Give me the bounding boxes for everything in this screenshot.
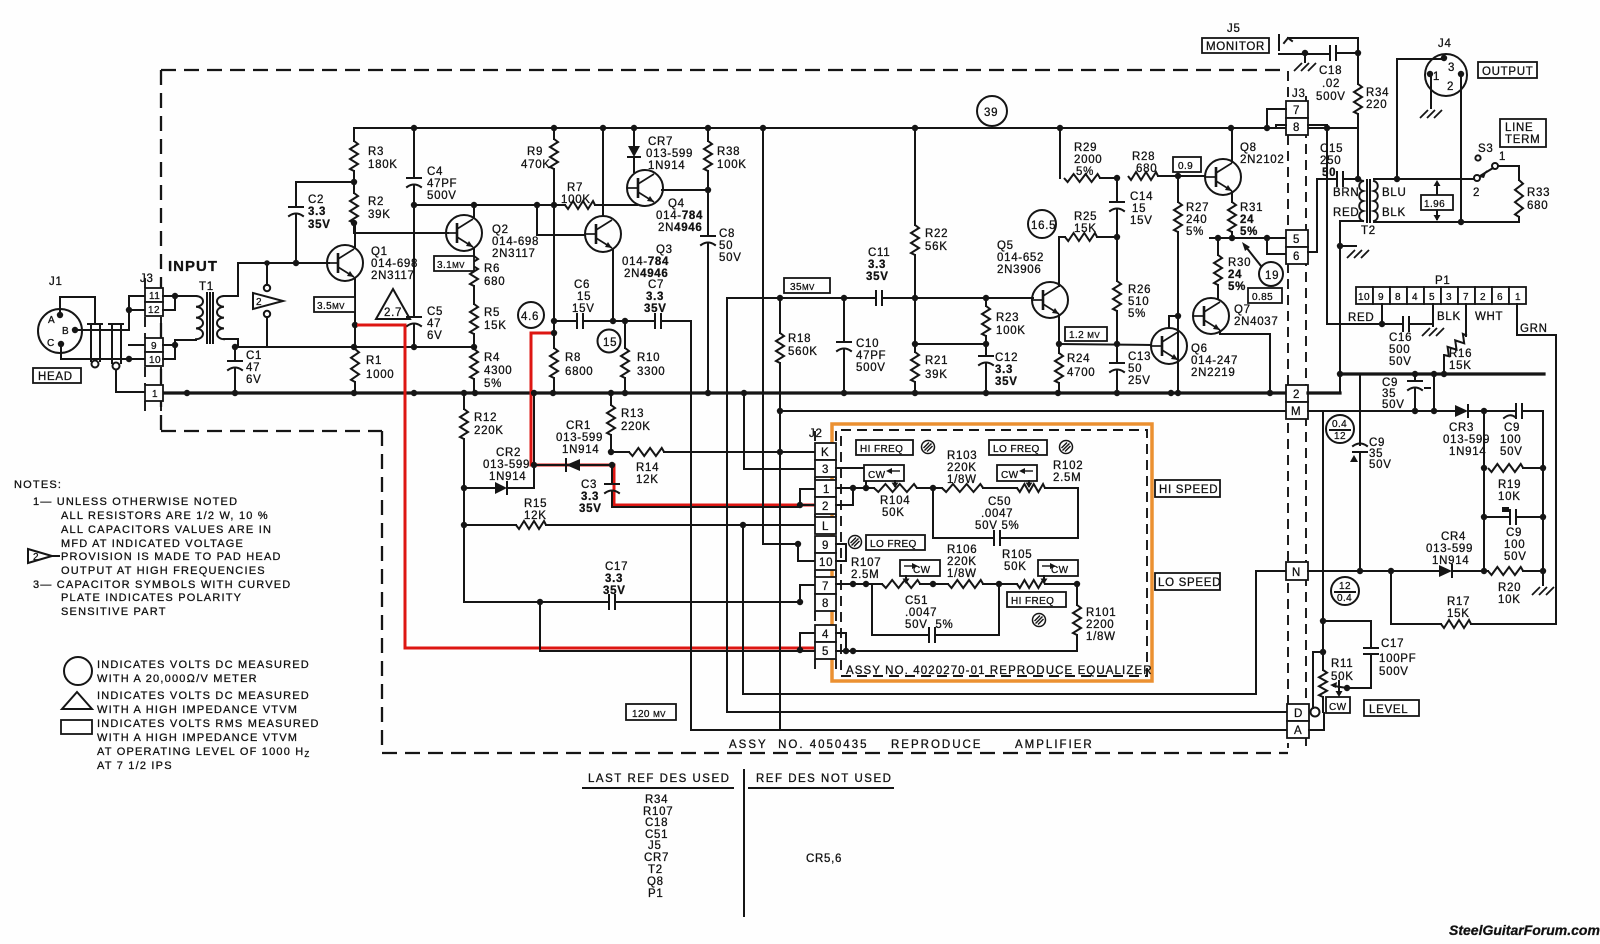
capacitor C13 bbox=[1110, 362, 1124, 364]
0.9 box bbox=[1173, 157, 1201, 172]
svg-text:R5: R5 bbox=[484, 307, 500, 319]
svg-text:220K: 220K bbox=[621, 421, 651, 433]
Q5 collector down bbox=[1058, 315, 1060, 353]
svg-text:2N4037: 2N4037 bbox=[1234, 316, 1278, 328]
Q3 base jog bbox=[537, 205, 585, 235]
svg-text:J3: J3 bbox=[1292, 88, 1306, 100]
resistor R106 bbox=[948, 580, 983, 588]
capacitor C10 bbox=[843, 298, 845, 342]
resistor R10 bbox=[624, 321, 626, 348]
svg-text:R29: R29 bbox=[1074, 142, 1097, 154]
pot R102 bbox=[1017, 484, 1045, 492]
T2 primary bottom to ground bbox=[1340, 221, 1363, 246]
wire J1 pin C bbox=[61, 344, 129, 359]
39 circle bbox=[977, 96, 1007, 126]
resistor R23 bbox=[985, 298, 987, 306]
svg-text:5%: 5% bbox=[1240, 226, 1258, 238]
svg-text:R20: R20 bbox=[1498, 582, 1521, 594]
table divider bbox=[743, 770, 745, 916]
J3-7 wire bbox=[1267, 109, 1286, 128]
svg-text:510: 510 bbox=[1128, 296, 1149, 308]
svg-text:5%: 5% bbox=[1076, 166, 1094, 178]
svg-text:50V: 50V bbox=[719, 252, 742, 264]
svg-text:R24: R24 bbox=[1067, 353, 1090, 365]
svg-text:Q3: Q3 bbox=[656, 244, 673, 256]
resistor R24 bbox=[1055, 353, 1063, 383]
svg-text:56K: 56K bbox=[925, 241, 948, 253]
svg-text:4700: 4700 bbox=[1067, 367, 1095, 379]
svg-text:C13: C13 bbox=[1128, 351, 1151, 363]
svg-text:50V: 50V bbox=[1504, 551, 1527, 563]
svg-text:50: 50 bbox=[719, 240, 733, 252]
svg-text:50K: 50K bbox=[882, 507, 905, 519]
B+ thick row bbox=[1340, 372, 1544, 375]
wire J1 pin B to J3 bracket bbox=[75, 329, 129, 331]
svg-text:HI FREQ: HI FREQ bbox=[860, 444, 903, 455]
R6-R5 wire bbox=[473, 286, 475, 304]
transistor Q2 bbox=[446, 215, 482, 251]
svg-text:35V: 35V bbox=[644, 303, 667, 315]
svg-text:NOTES:: NOTES: bbox=[14, 479, 62, 491]
svg-text:3.3: 3.3 bbox=[581, 491, 599, 503]
resistor R11 bbox=[1319, 670, 1327, 697]
top supply bus bbox=[354, 127, 1358, 129]
svg-text:1.2 MV: 1.2 MV bbox=[1069, 330, 1100, 341]
svg-text:014-698: 014-698 bbox=[492, 236, 539, 248]
svg-text:50K: 50K bbox=[1004, 561, 1027, 573]
T2 secondary bottom row bbox=[1374, 221, 1519, 223]
svg-text:2: 2 bbox=[33, 552, 39, 563]
LO FREQ box 2 bbox=[866, 535, 925, 550]
svg-text:T2: T2 bbox=[1361, 225, 1376, 237]
J4 ground bbox=[1430, 76, 1432, 108]
svg-text:12: 12 bbox=[1339, 581, 1351, 592]
R11 column bbox=[1322, 411, 1324, 670]
resistor R101 bbox=[1076, 584, 1078, 605]
J2 pin3 row bbox=[744, 468, 815, 470]
svg-text:R7: R7 bbox=[567, 182, 583, 194]
capacitor C14 bbox=[1116, 178, 1118, 202]
svg-text:Q7: Q7 bbox=[1234, 304, 1251, 316]
svg-text:R10: R10 bbox=[637, 352, 660, 364]
svg-text:12K: 12K bbox=[636, 474, 659, 486]
svg-text:C16: C16 bbox=[1389, 332, 1412, 344]
dashed amplifier border top bbox=[161, 69, 1288, 71]
svg-text:C15: C15 bbox=[1320, 143, 1343, 155]
M row dots bbox=[1412, 408, 1487, 414]
svg-text:220: 220 bbox=[1366, 99, 1387, 111]
svg-text:Q8: Q8 bbox=[1240, 142, 1257, 154]
svg-text:R12: R12 bbox=[474, 412, 497, 424]
row N-L link bbox=[743, 524, 815, 526]
note 2 triangle bbox=[28, 549, 52, 563]
svg-text:R18: R18 bbox=[788, 333, 811, 345]
HI SPEED box bbox=[1155, 480, 1220, 497]
ground at C18 bbox=[1304, 53, 1306, 62]
svg-text:D: D bbox=[1294, 708, 1303, 720]
svg-text:CR2: CR2 bbox=[496, 447, 521, 459]
Q1 collector bbox=[354, 223, 356, 248]
svg-text:HI FREQ: HI FREQ bbox=[1011, 596, 1054, 607]
resistor R2 bbox=[350, 193, 358, 223]
svg-text:.02: .02 bbox=[1322, 78, 1340, 90]
Q5 emitter up bbox=[1059, 237, 1065, 286]
svg-text:2.5M: 2.5M bbox=[1053, 472, 1081, 484]
legend rectangle bbox=[61, 720, 92, 734]
cable shield 2 bbox=[109, 323, 123, 325]
svg-text:.0047: .0047 bbox=[905, 607, 937, 619]
M row bbox=[780, 410, 1288, 412]
red test wire from Q1 emitter bbox=[357, 325, 814, 648]
Q7 collector to bus bbox=[1220, 331, 1270, 393]
svg-text:100: 100 bbox=[1500, 434, 1521, 446]
resistor R103 bbox=[942, 484, 983, 492]
svg-text:013-599: 013-599 bbox=[646, 148, 693, 160]
svg-text:500V: 500V bbox=[1379, 666, 1409, 678]
J3 right dashed column bbox=[1287, 71, 1289, 748]
svg-text:6: 6 bbox=[1497, 292, 1503, 303]
row to R4 bbox=[238, 346, 475, 348]
dashed border left lower bbox=[381, 431, 383, 753]
svg-text:AT 7 1/2 IPS: AT 7 1/2 IPS bbox=[97, 760, 173, 772]
svg-text:5%: 5% bbox=[1186, 226, 1204, 238]
3.5MV box bbox=[314, 297, 355, 312]
svg-text:CW: CW bbox=[1001, 470, 1019, 481]
K row vertical feed bbox=[763, 543, 798, 545]
svg-text:2N3117: 2N3117 bbox=[371, 270, 415, 282]
svg-text:9: 9 bbox=[822, 540, 829, 552]
svg-text:15K: 15K bbox=[484, 320, 507, 332]
transistor Q3 bbox=[585, 216, 621, 252]
Q2 collector bbox=[473, 205, 475, 218]
svg-text:100PF: 100PF bbox=[1379, 653, 1416, 665]
CW box 2 bbox=[997, 465, 1037, 481]
HI FREQ box 3 bbox=[1007, 592, 1066, 607]
resistor R27 bbox=[1177, 176, 1179, 202]
svg-text:35V: 35V bbox=[308, 219, 331, 231]
svg-text:3: 3 bbox=[1448, 62, 1455, 74]
CW box 3 bbox=[900, 560, 940, 576]
svg-text:7: 7 bbox=[1293, 105, 1300, 117]
svg-text:SteelGuitarForum.com: SteelGuitarForum.com bbox=[1449, 922, 1600, 938]
svg-text:1— UNLESS OTHERWISE NOTED: 1— UNLESS OTHERWISE NOTED bbox=[33, 496, 238, 508]
svg-text:WITH A HIGH IMPEDANCE VTVM: WITH A HIGH IMPEDANCE VTVM bbox=[97, 732, 298, 744]
svg-text:16.5: 16.5 bbox=[1031, 220, 1056, 232]
svg-text:220K: 220K bbox=[947, 556, 977, 568]
J2 pin10 left bracket bbox=[798, 544, 815, 561]
svg-text:Q5: Q5 bbox=[997, 240, 1014, 252]
resistor R13 bbox=[610, 393, 612, 405]
15 circle callout bbox=[598, 330, 621, 353]
svg-text:12K: 12K bbox=[524, 510, 547, 522]
svg-text:35V: 35V bbox=[579, 503, 602, 515]
svg-text:C12: C12 bbox=[995, 352, 1018, 364]
svg-text:9: 9 bbox=[151, 341, 157, 352]
svg-text:680: 680 bbox=[1527, 200, 1548, 212]
diode CR7 bbox=[633, 128, 635, 146]
J3 left brackets bbox=[128, 296, 130, 330]
J3 box N bbox=[1286, 562, 1308, 580]
svg-text:R34: R34 bbox=[1366, 87, 1389, 99]
svg-text:PLATE INDICATES POLARITY: PLATE INDICATES POLARITY bbox=[61, 592, 242, 604]
svg-text:C51: C51 bbox=[905, 595, 928, 607]
svg-text:R21: R21 bbox=[925, 355, 948, 367]
svg-text:R30: R30 bbox=[1228, 257, 1251, 269]
svg-text:50V: 50V bbox=[1369, 459, 1392, 471]
svg-text:A: A bbox=[1294, 725, 1302, 737]
pot R107 bbox=[882, 580, 920, 588]
diode CR2 bbox=[464, 487, 495, 489]
svg-text:J5: J5 bbox=[648, 840, 662, 852]
svg-text:P1: P1 bbox=[648, 888, 663, 900]
svg-text:LO FREQ: LO FREQ bbox=[993, 444, 1040, 455]
svg-text:15V: 15V bbox=[1130, 215, 1153, 227]
eq row 584 mid bbox=[920, 583, 948, 585]
svg-text:2: 2 bbox=[822, 501, 829, 513]
svg-text:2: 2 bbox=[1480, 292, 1486, 303]
svg-text:014-652: 014-652 bbox=[997, 252, 1044, 264]
svg-text:C5: C5 bbox=[427, 306, 443, 318]
svg-text:PROVISION IS MADE TO PAD: PROVISION IS MADE TO PAD HEAD bbox=[61, 551, 282, 563]
svg-text:R105: R105 bbox=[1002, 549, 1032, 561]
svg-text:R34: R34 bbox=[645, 794, 668, 806]
svg-text:100K: 100K bbox=[717, 159, 747, 171]
svg-text:1N914: 1N914 bbox=[648, 160, 685, 172]
eq row 488 right corner bbox=[1045, 488, 1078, 538]
second stub bbox=[1433, 374, 1435, 411]
svg-text:2N3906: 2N3906 bbox=[997, 264, 1041, 276]
svg-text:3.3: 3.3 bbox=[646, 291, 664, 303]
transistor Q4 bbox=[627, 170, 663, 206]
svg-text:4: 4 bbox=[1412, 292, 1418, 303]
svg-text:1/8W: 1/8W bbox=[947, 474, 977, 486]
resistor R29 bbox=[1059, 128, 1061, 178]
J3 left dashed connector body bbox=[145, 278, 161, 413]
svg-text:6: 6 bbox=[1293, 251, 1300, 263]
svg-text:500: 500 bbox=[1389, 344, 1410, 356]
svg-text:39K: 39K bbox=[368, 209, 391, 221]
svg-text:47PF: 47PF bbox=[427, 178, 457, 190]
svg-text:8: 8 bbox=[1395, 292, 1401, 303]
legend circle bbox=[64, 657, 92, 685]
svg-text:3.3: 3.3 bbox=[308, 206, 326, 218]
svg-text:220K: 220K bbox=[474, 425, 504, 437]
svg-text:INDICATES VOLTS DC MEASURED: INDICATES VOLTS DC MEASURED bbox=[97, 690, 310, 702]
eq row 651 bbox=[836, 650, 1077, 652]
svg-text:CR5,6: CR5,6 bbox=[806, 853, 842, 865]
Q6 emitter bbox=[1177, 362, 1179, 393]
svg-text:S3: S3 bbox=[1478, 143, 1493, 155]
capacitor C18 bbox=[1329, 46, 1331, 60]
middle vertical feeds bbox=[726, 298, 728, 712]
capacitor C17 row bbox=[464, 601, 609, 603]
svg-text:C4: C4 bbox=[427, 166, 443, 178]
svg-text:INPUT: INPUT bbox=[168, 258, 218, 275]
svg-text:5%: 5% bbox=[484, 378, 502, 390]
J3 boxes 5/6 bbox=[1286, 230, 1308, 247]
svg-text:50V: 50V bbox=[1382, 399, 1405, 411]
resistor R38 bbox=[707, 128, 709, 141]
svg-text:CW: CW bbox=[1329, 702, 1347, 713]
svg-text:2: 2 bbox=[1293, 389, 1300, 401]
equalizer dashed border bbox=[841, 430, 1147, 676]
svg-text:AMPLIFIER: AMPLIFIER bbox=[1015, 739, 1094, 751]
svg-text:R6: R6 bbox=[484, 263, 500, 275]
svg-text:R14: R14 bbox=[636, 462, 659, 474]
jack wires to C18 bbox=[1288, 38, 1358, 53]
svg-text:4300: 4300 bbox=[484, 365, 512, 377]
svg-text:10: 10 bbox=[819, 557, 833, 569]
svg-text:5%: 5% bbox=[1128, 308, 1146, 320]
HEAD label bbox=[33, 368, 81, 383]
svg-text:C14: C14 bbox=[1130, 191, 1153, 203]
svg-text:REPRODUCE: REPRODUCE bbox=[891, 739, 982, 751]
svg-text:RED: RED bbox=[1333, 207, 1359, 219]
LO FREQ box 1 bbox=[989, 440, 1047, 455]
svg-text:R1: R1 bbox=[366, 355, 382, 367]
transistor Q6 bbox=[1151, 328, 1187, 364]
M row right extension bbox=[1308, 410, 1455, 412]
svg-text:C: C bbox=[47, 338, 55, 349]
svg-text:2N3117: 2N3117 bbox=[492, 248, 536, 260]
svg-text:1/8W: 1/8W bbox=[947, 568, 977, 580]
Q2 emitter / R6 bbox=[473, 248, 475, 256]
svg-text:R38: R38 bbox=[717, 146, 740, 158]
svg-text:50: 50 bbox=[1128, 363, 1142, 375]
svg-text:1: 1 bbox=[1499, 151, 1506, 163]
35MV box bbox=[784, 278, 830, 293]
svg-text:24: 24 bbox=[1228, 269, 1242, 281]
svg-text:J3: J3 bbox=[140, 273, 154, 285]
svg-text:15V: 15V bbox=[572, 303, 595, 315]
svg-text:3.3: 3.3 bbox=[605, 573, 623, 585]
svg-text:1N914: 1N914 bbox=[562, 444, 599, 456]
bus dots bbox=[184, 390, 1273, 396]
svg-text:1/8W: 1/8W bbox=[1086, 631, 1116, 643]
svg-text:R16: R16 bbox=[1449, 348, 1472, 360]
T2 RED lead down bbox=[1339, 246, 1341, 374]
svg-text:C50: C50 bbox=[988, 496, 1011, 508]
J2 pin9/10 right bracket bbox=[836, 544, 846, 561]
svg-text:2: 2 bbox=[1473, 187, 1480, 199]
Q8 emitter / R31 bbox=[1231, 192, 1233, 202]
svg-text:014-698: 014-698 bbox=[371, 258, 418, 270]
svg-text:1N914: 1N914 bbox=[489, 471, 526, 483]
120MV box bbox=[626, 704, 676, 720]
resistor R12 bbox=[463, 393, 465, 409]
svg-text:1: 1 bbox=[152, 389, 158, 400]
Q6 base row bbox=[1059, 344, 1151, 345]
connector J4 bbox=[1425, 54, 1467, 96]
R7 row bbox=[414, 204, 565, 206]
svg-text:C6: C6 bbox=[574, 279, 590, 291]
svg-text:2: 2 bbox=[1447, 81, 1454, 93]
svg-text:500V: 500V bbox=[1316, 91, 1346, 103]
capacitor C9 35 50V (c) bbox=[1359, 374, 1361, 445]
svg-text:35V: 35V bbox=[603, 585, 626, 597]
svg-text:014-247: 014-247 bbox=[1191, 355, 1238, 367]
16.5 circle bbox=[1028, 210, 1056, 238]
HI FREQ box 1 bbox=[856, 440, 913, 455]
svg-text:ASSY NO. 4050435: ASSY NO. 4050435 bbox=[729, 739, 868, 751]
wire to J4 pin3 bbox=[1397, 59, 1441, 179]
dashed border jog bbox=[161, 430, 382, 432]
svg-text:2N2219: 2N2219 bbox=[1191, 367, 1235, 379]
N row bbox=[1308, 570, 1439, 572]
svg-text:BLU: BLU bbox=[1382, 187, 1406, 199]
svg-text:014-784: 014-784 bbox=[622, 256, 669, 268]
svg-text:50V 5%: 50V 5% bbox=[905, 619, 953, 631]
equalizer orange border bbox=[832, 424, 1152, 681]
svg-text:WITH A 20,000Ω/V METER: WITH A 20,000Ω/V METER bbox=[97, 673, 258, 685]
svg-text:2200: 2200 bbox=[1086, 619, 1114, 631]
ground bus bbox=[163, 391, 1288, 394]
Q4 emitter to C8 node bbox=[662, 189, 708, 191]
phone jack symbol bbox=[1278, 35, 1280, 50]
svg-text:220K: 220K bbox=[947, 462, 977, 474]
svg-text:CR1: CR1 bbox=[566, 420, 591, 432]
row 238 to J3-5 bbox=[1210, 237, 1288, 239]
svg-text:CR7: CR7 bbox=[648, 136, 673, 148]
svg-text:B: B bbox=[62, 326, 69, 337]
capacitor C12 bbox=[979, 355, 993, 357]
svg-text:2000: 2000 bbox=[1074, 154, 1102, 166]
svg-text:47PF: 47PF bbox=[856, 350, 886, 362]
T1 right side brackets from J3 bbox=[163, 295, 175, 297]
svg-text:Q1: Q1 bbox=[371, 246, 388, 258]
svg-text:RED: RED bbox=[1348, 312, 1374, 324]
svg-text:N: N bbox=[1292, 567, 1301, 579]
svg-text:12: 12 bbox=[1334, 431, 1346, 442]
svg-text:10: 10 bbox=[1358, 292, 1370, 303]
svg-text:BLK: BLK bbox=[1382, 207, 1406, 219]
svg-text:WITH A HIGH IMPEDANCE VTVM: WITH A HIGH IMPEDANCE VTVM bbox=[97, 704, 298, 716]
J3-6 bracket bbox=[1267, 238, 1288, 254]
svg-text:35V: 35V bbox=[866, 271, 889, 283]
svg-text:R11: R11 bbox=[1331, 658, 1353, 670]
svg-text:Q2: Q2 bbox=[492, 224, 509, 236]
svg-text:C18: C18 bbox=[645, 817, 668, 829]
svg-text:2.7: 2.7 bbox=[384, 307, 402, 319]
R11 wiper bbox=[1344, 685, 1350, 691]
J2 dashed connector body bbox=[815, 431, 836, 675]
svg-text:Q8: Q8 bbox=[647, 876, 664, 888]
svg-text:6V: 6V bbox=[427, 330, 442, 342]
svg-text:T1: T1 bbox=[199, 281, 214, 293]
J2 pin2 right bracket bbox=[836, 488, 853, 505]
capacitor C3 bbox=[611, 465, 613, 484]
pin5 black row bbox=[540, 602, 815, 651]
svg-text:OUTPUT AT HIGH FREQUENCIES: OUTPUT AT HIGH FREQUENCIES bbox=[61, 565, 266, 577]
capacitor C9 35 50V (a) bbox=[1414, 374, 1416, 381]
svg-text:CW: CW bbox=[868, 470, 886, 481]
C51 branch bbox=[872, 584, 929, 635]
svg-text:0.9: 0.9 bbox=[1178, 161, 1193, 172]
transformer T2 bbox=[1366, 180, 1368, 222]
svg-text:R106: R106 bbox=[947, 544, 977, 556]
svg-text:180K: 180K bbox=[368, 159, 398, 171]
svg-text:ASSY NO. 4020270-01 REPRODUCE: ASSY NO. 4020270-01 REPRODUCE EQUALIZER bbox=[846, 665, 1153, 677]
svg-text:L: L bbox=[822, 521, 829, 533]
svg-text:3: 3 bbox=[822, 464, 829, 476]
svg-text:6V: 6V bbox=[246, 374, 261, 386]
svg-text:R22: R22 bbox=[925, 228, 948, 240]
svg-text:C2: C2 bbox=[308, 194, 324, 206]
svg-text:R23: R23 bbox=[996, 312, 1019, 324]
0.85 box bbox=[1248, 288, 1282, 303]
svg-text:K: K bbox=[821, 447, 829, 459]
Q8 collector bbox=[1231, 128, 1233, 162]
